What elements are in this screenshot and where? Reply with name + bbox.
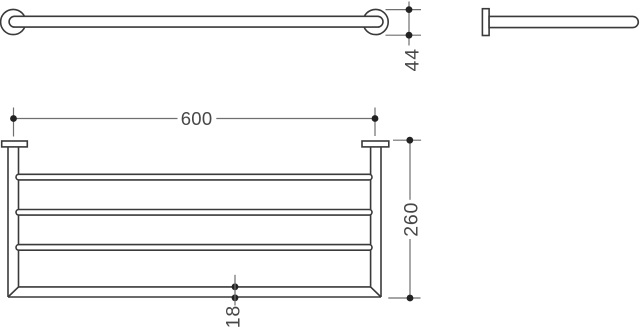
- plan view: front tube inner line: [19, 286, 371, 288]
- front view: right wall rosette: [363, 9, 388, 34]
- side view: wall plate: [482, 9, 489, 36]
- plan view: shelf bar 1: [16, 174, 372, 180]
- plan view: left rail outer line: [7, 147, 9, 297]
- dim 260: dimension line upper segment: [409, 140, 411, 200]
- plan view: shelf bar 2: [16, 210, 372, 216]
- dim 44: upper extension line: [386, 9, 422, 11]
- dim 600: left dot: [10, 115, 17, 122]
- dim 260: bottom extension line: [388, 297, 420, 299]
- dim 600: dimension line left segment: [14, 118, 178, 120]
- dim 260: top extension line: [393, 139, 421, 141]
- svg-text:600: 600: [181, 108, 213, 129]
- svg-text:260: 260: [400, 202, 422, 237]
- plan view: shelf bar 3: [16, 245, 372, 251]
- dim 260: bottom dot: [407, 295, 414, 302]
- dim 18: lower dot: [232, 294, 239, 301]
- dim 18: upper dot: [232, 283, 239, 290]
- dim 600: right extension line: [374, 108, 376, 137]
- svg-text:44: 44: [401, 48, 423, 71]
- dim 44: dimension line: [408, 2, 410, 46]
- svg-text:18: 18: [222, 305, 244, 328]
- plan view: right miter diagonal: [371, 287, 381, 297]
- dim 600: right dot: [372, 115, 379, 122]
- dim 600: left extension line: [13, 108, 15, 137]
- plan view: right wall flange: [362, 141, 389, 147]
- dim 44: lower dot: [406, 32, 413, 39]
- dim 260: top dot: [406, 137, 413, 144]
- dim 44: lower extension line: [386, 34, 422, 36]
- dim 260: dimension line lower segment: [409, 239, 411, 298]
- dim 600: dimension line right segment: [216, 118, 375, 120]
- plan view: right rail inner line: [370, 147, 372, 287]
- plan view: front tube outer line: [8, 296, 381, 298]
- front view: towel bar tube: [9, 16, 383, 27]
- plan view: left rail inner line: [18, 147, 20, 287]
- dim 18: dimension line: [234, 275, 236, 306]
- front view: left wall rosette: [1, 9, 26, 34]
- plan view: right rail outer line: [380, 147, 382, 297]
- dim 44: upper dot: [406, 6, 413, 13]
- plan view: left miter diagonal: [8, 287, 19, 297]
- side view: bar profile: [489, 16, 638, 27]
- plan view: left wall flange: [2, 141, 28, 147]
